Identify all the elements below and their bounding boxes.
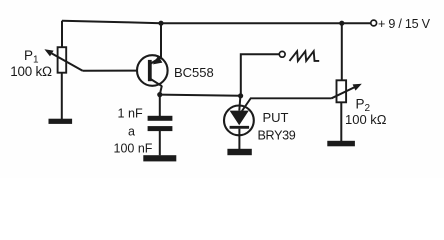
svg-text:a: a bbox=[128, 124, 135, 138]
svg-text:100 kΩ: 100 kΩ bbox=[10, 64, 52, 79]
wire wiper to transistor base bbox=[83, 70, 138, 72]
sawtooth waveform symbol bbox=[290, 51, 320, 61]
svg-text:PUT: PUT bbox=[263, 110, 289, 125]
potentiometer P2 body bbox=[337, 80, 347, 102]
potentiometer P1 body bbox=[58, 47, 67, 72]
ground (P1) bbox=[49, 119, 73, 124]
wire emitter to rail bbox=[160, 23, 162, 57]
terminal output open circle bbox=[279, 51, 285, 57]
svg-text:100 kΩ: 100 kΩ bbox=[345, 112, 387, 127]
svg-text:1 nF: 1 nF bbox=[118, 106, 144, 120]
wire PUT cathode to ground bbox=[238, 129, 240, 149]
wire capacitor to ground bbox=[159, 131, 161, 155]
ground (PUT) bbox=[227, 149, 251, 155]
transistor Q1 BC558 bbox=[137, 55, 168, 86]
node top junction (P2 column) bbox=[339, 21, 344, 26]
capacitor C1 plates bbox=[148, 116, 173, 131]
potentiometer P2 wiper arrow bbox=[332, 84, 362, 99]
ground (P2) bbox=[327, 141, 355, 147]
svg-text:+ 9 / 15 V: + 9 / 15 V bbox=[378, 17, 431, 31]
terminal +9/15V open circle bbox=[371, 20, 377, 26]
wire collector to node A bbox=[160, 86, 162, 95]
wire top supply rail bbox=[62, 21, 371, 24]
svg-text:BC558: BC558 bbox=[174, 65, 214, 80]
node top junction (emitter column) bbox=[158, 21, 163, 26]
wire P1 bottom to ground bbox=[61, 73, 63, 119]
ground (capacitor) bbox=[143, 155, 176, 161]
wire PUT gate to P2 wiper bbox=[242, 98, 332, 111]
wire rail to P2 top bbox=[341, 23, 343, 80]
wire node B to PUT anode bbox=[239, 96, 240, 111]
wire node A to capacitor bbox=[159, 95, 161, 116]
wire node A to node B bbox=[160, 95, 241, 96]
potentiometer P1 wiper arrow bbox=[44, 49, 82, 71]
svg-text:BRY39: BRY39 bbox=[258, 129, 296, 143]
node A junction bbox=[157, 92, 162, 97]
node B junction bbox=[238, 93, 243, 98]
wire rail to P1 top bbox=[61, 21, 63, 48]
wire node B to output terminal bbox=[241, 54, 279, 96]
svg-text:100 nF: 100 nF bbox=[114, 141, 153, 155]
svg-text:P1: P1 bbox=[24, 48, 39, 66]
wire P2 bottom to ground bbox=[340, 102, 342, 141]
PUT BRY39 bbox=[224, 106, 254, 136]
